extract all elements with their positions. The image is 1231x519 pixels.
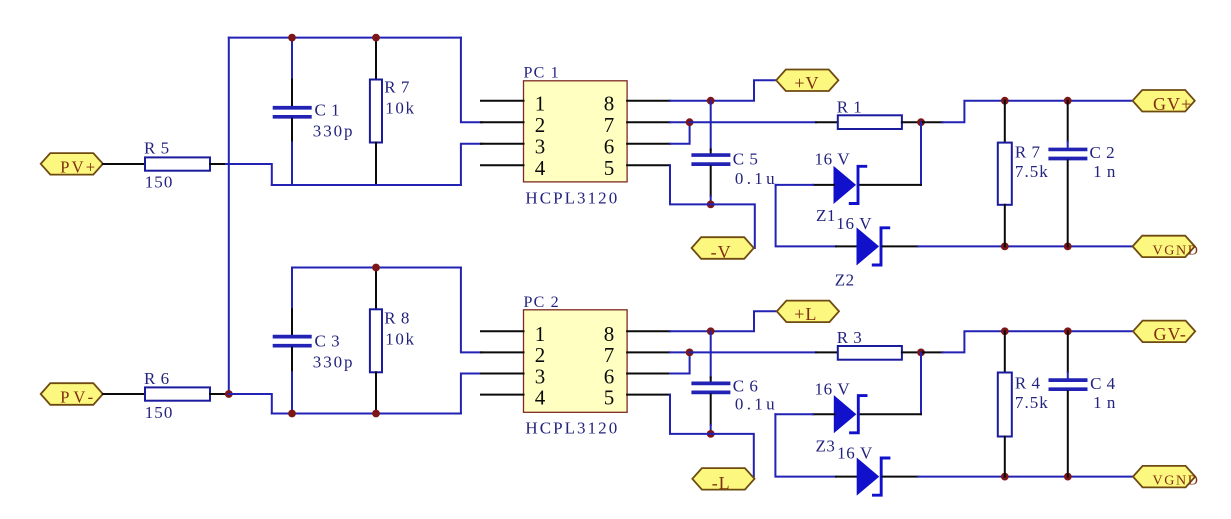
svg-text:R 7: R 7 <box>1015 142 1041 161</box>
connector +V <box>776 70 838 92</box>
node R8 top <box>372 264 380 272</box>
node C2 bottom <box>1064 243 1072 251</box>
wire Z1 anode <box>813 184 834 186</box>
wire pin5 to -L <box>670 395 711 434</box>
pin 3 PC1 <box>481 143 524 145</box>
svg-text:R 7: R 7 <box>384 78 410 97</box>
svg-text:150: 150 <box>145 172 175 191</box>
svg-text:VGND: VGND <box>1153 243 1199 258</box>
svg-text:C 6: C 6 <box>733 377 759 396</box>
resistor R7 10k <box>375 38 377 80</box>
svg-text:GV-: GV- <box>1154 324 1187 344</box>
pin 8 PC2 <box>627 330 670 332</box>
wire -V branch <box>711 204 755 248</box>
capacitor C4 1n <box>1067 331 1069 372</box>
svg-text:PC 1: PC 1 <box>524 64 560 81</box>
svg-text:HCPL3120: HCPL3120 <box>525 419 619 438</box>
connector PV- <box>41 383 103 405</box>
pin 8 PC1 <box>627 100 670 102</box>
pin 7 PC1 <box>627 121 670 123</box>
connector VGND bottom <box>1133 466 1195 488</box>
svg-text:330p: 330p <box>313 353 355 372</box>
pin 1 PC1 <box>481 100 524 102</box>
svg-text:Z2: Z2 <box>835 271 855 290</box>
svg-text:R 4: R 4 <box>1015 373 1041 392</box>
zener Z4 16V <box>857 459 878 495</box>
connector +L <box>777 301 839 323</box>
svg-text:R 8: R 8 <box>384 309 410 328</box>
svg-text:R 6: R 6 <box>144 369 170 388</box>
node C4 top <box>1064 327 1072 335</box>
svg-text:1 n: 1 n <box>1093 393 1116 412</box>
wire Z4 cathode to VGND rail <box>883 476 918 478</box>
svg-text:7.5k: 7.5k <box>1015 393 1049 412</box>
node C2 top <box>1064 97 1072 105</box>
pin 5 PC1 <box>627 164 670 166</box>
node R7 top <box>372 34 380 42</box>
resistor R5 <box>145 157 210 170</box>
op-amp U1 optocoupler PC1 HCPL3120 <box>524 81 628 182</box>
node gate top <box>917 118 925 126</box>
wire R3 right lead <box>902 351 921 353</box>
connector VGND top <box>1133 236 1195 257</box>
zener Z1 16V <box>834 167 855 203</box>
wire pin5 to -V <box>670 165 711 204</box>
node C5 bottom <box>707 201 715 209</box>
svg-text:5: 5 <box>604 156 615 180</box>
svg-text:16 V: 16 V <box>837 444 873 463</box>
wire gate to Z1 <box>920 122 922 185</box>
svg-text:Z1: Z1 <box>816 206 836 225</box>
svg-text:5: 5 <box>604 385 615 409</box>
svg-text:6: 6 <box>604 135 615 159</box>
wire R5 right lead <box>210 163 226 165</box>
svg-text:2: 2 <box>535 113 546 137</box>
node C1 top <box>288 34 296 42</box>
node R7b top <box>1001 97 1009 105</box>
resistor R8 10k <box>375 268 377 310</box>
svg-text:VGND: VGND <box>1153 474 1199 489</box>
wire -L branch <box>711 434 754 479</box>
resistor R3 <box>838 346 902 360</box>
capacitor C6 0.1u <box>710 331 712 377</box>
node PV net junction <box>225 390 233 398</box>
wire pin8 to +L <box>670 311 777 331</box>
svg-text:PV+: PV+ <box>60 158 96 177</box>
capacitor C3 <box>291 268 293 310</box>
wire pin7 to pin6 tie <box>670 351 690 353</box>
pin 2 PC1 <box>481 121 524 123</box>
node R8 bottom <box>372 410 380 418</box>
node R4 top <box>1001 327 1009 335</box>
node C4 bottom <box>1064 473 1072 481</box>
node pin7 <box>686 118 694 126</box>
zener Z3 16V <box>834 396 855 432</box>
svg-text:0.1u: 0.1u <box>735 395 777 414</box>
svg-text:16 V: 16 V <box>836 214 872 233</box>
wire loop2 bottom rail <box>272 413 461 415</box>
svg-text:3: 3 <box>535 135 546 159</box>
wire Z3 to Z4 <box>775 414 836 476</box>
svg-text:C 4: C 4 <box>1090 374 1116 393</box>
wire R1 right lead <box>902 121 921 123</box>
wire gate to GV+ rail <box>921 121 943 123</box>
wire loop to pin3 <box>461 144 482 185</box>
node pin8 C5 <box>707 97 715 105</box>
svg-text:330p: 330p <box>313 122 355 141</box>
connector -L <box>692 468 754 490</box>
svg-text:4: 4 <box>535 156 546 180</box>
svg-text:PC 2: PC 2 <box>524 294 560 311</box>
wire R6 to loop <box>229 394 292 414</box>
svg-text:1 n: 1 n <box>1093 162 1116 181</box>
connector -V <box>692 237 754 259</box>
svg-text:10k: 10k <box>385 330 416 349</box>
op-amp U2 optocoupler PC2 HCPL3120 <box>524 310 628 413</box>
wire PV+ to R5 <box>103 163 145 165</box>
wire R5 to loop <box>226 164 292 185</box>
wire loop bottom rail <box>272 184 461 186</box>
pin 5 PC2 <box>627 394 670 396</box>
pin 4 PC2 <box>481 394 524 396</box>
pin 6 PC2 <box>627 373 670 375</box>
connector GV- <box>1133 321 1195 343</box>
svg-text:Z3: Z3 <box>816 436 836 455</box>
svg-text:R 5: R 5 <box>144 139 170 158</box>
wire Z3 anode <box>813 413 834 415</box>
zener Z2 16V <box>857 228 878 264</box>
wire loop2 to pin2 <box>461 268 482 353</box>
capacitor C5 0.1u <box>710 101 712 150</box>
svg-text:+V: +V <box>794 73 819 93</box>
svg-text:C 3: C 3 <box>315 331 341 350</box>
node pin7 PC2 <box>686 349 694 357</box>
wire pin7 to pin6 tie <box>670 121 690 123</box>
svg-text:1: 1 <box>535 92 546 116</box>
capacitor C1 <box>291 38 293 80</box>
wire loop2 top rail <box>292 267 461 269</box>
wire gate to GV- rail <box>921 351 943 353</box>
wire pin8 to +V <box>670 80 776 100</box>
pin 4 PC1 <box>481 164 524 166</box>
pin 1 PC2 <box>481 330 524 332</box>
pin 2 PC2 <box>481 351 524 353</box>
wire Z2 cathode to VGND rail <box>883 245 919 247</box>
wire loop2 to pin3 <box>461 374 482 414</box>
capacitor C2 1n <box>1067 101 1069 142</box>
wire main vertical PV net <box>228 38 230 394</box>
svg-text:-L: -L <box>712 473 731 493</box>
resistor R4 7.5k <box>1004 331 1006 372</box>
node R4 bottom <box>1001 473 1009 481</box>
connector PV+ <box>41 153 103 175</box>
svg-text:C 1: C 1 <box>315 100 341 119</box>
svg-text:R 1: R 1 <box>837 98 863 117</box>
svg-text:HCPL3120: HCPL3120 <box>525 188 619 207</box>
svg-text:16 V: 16 V <box>815 150 851 169</box>
svg-text:+L: +L <box>794 304 817 324</box>
wire pin7 to R1 <box>690 121 816 123</box>
svg-text:8: 8 <box>604 92 615 116</box>
resistor R7 7.5k <box>1004 101 1006 143</box>
node pin8 C6 <box>707 327 715 335</box>
wire R6 right lead <box>210 393 226 395</box>
svg-text:C 5: C 5 <box>733 150 759 169</box>
wire pin7 to R3 <box>690 351 816 353</box>
wire gate to Z3 <box>920 352 922 414</box>
svg-text:PV-: PV- <box>60 388 94 407</box>
wire PV- to R6 <box>103 393 145 395</box>
pin 3 PC2 <box>481 373 524 375</box>
svg-text:10k: 10k <box>385 99 416 118</box>
svg-text:4: 4 <box>535 385 546 409</box>
pin 7 PC2 <box>627 351 670 353</box>
resistor R1 <box>838 115 902 129</box>
wire loop to pin2 <box>461 38 482 123</box>
node R7b bottom <box>1001 243 1009 251</box>
node C6 bottom <box>707 430 715 438</box>
resistor R6 <box>145 387 210 400</box>
pin 6 PC1 <box>627 143 670 145</box>
svg-text:-V: -V <box>711 242 732 262</box>
svg-text:7: 7 <box>604 113 615 137</box>
svg-text:0.1u: 0.1u <box>735 169 777 188</box>
node C3 bottom <box>288 410 296 418</box>
wire top rail <box>229 37 461 39</box>
connector GV+ <box>1133 90 1195 112</box>
wire Z1 to Z2 <box>776 185 836 247</box>
svg-text:150: 150 <box>145 403 175 422</box>
svg-text:R 3: R 3 <box>837 328 863 347</box>
svg-text:16 V: 16 V <box>815 380 851 399</box>
svg-text:GV+: GV+ <box>1153 94 1192 114</box>
svg-text:C 2: C 2 <box>1090 143 1116 162</box>
node gate bottom <box>917 349 925 357</box>
svg-text:7.5k: 7.5k <box>1015 162 1049 181</box>
